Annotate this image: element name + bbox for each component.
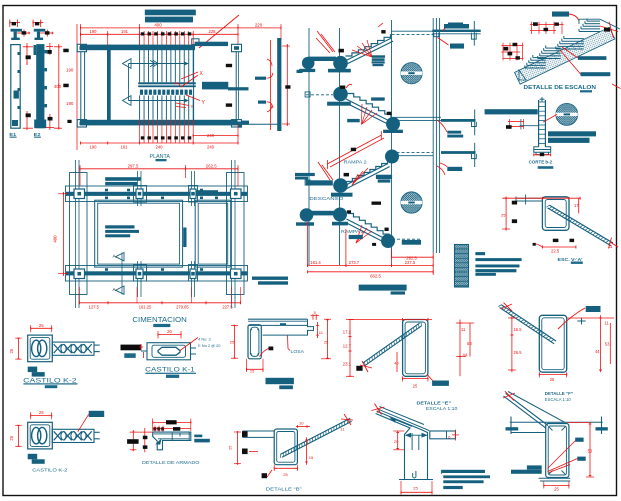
svg-text:25: 25: [227, 445, 232, 450]
svg-text:25: 25: [39, 323, 44, 328]
svg-text:DETALLE “B”: DETALLE “B”: [266, 487, 303, 492]
svg-text:662.5: 662.5: [370, 274, 381, 279]
svg-text:CASTILO K-1: CASTILO K-1: [145, 367, 195, 374]
svg-text:227.5: 227.5: [405, 260, 416, 265]
svg-text:25: 25: [283, 472, 288, 477]
svg-text:11: 11: [461, 327, 466, 332]
svg-text:161.4: 161.4: [310, 260, 321, 265]
svg-text:10: 10: [299, 420, 304, 425]
svg-text:240: 240: [156, 144, 164, 149]
svg-text:190: 190: [66, 101, 74, 106]
svg-text:228: 228: [209, 29, 217, 34]
svg-text:11: 11: [608, 244, 613, 249]
svg-text:25: 25: [550, 377, 555, 382]
svg-text:400: 400: [53, 235, 58, 243]
svg-text:DETALLE “F”: DETALLE “F”: [545, 391, 573, 396]
svg-text:Y: Y: [191, 104, 194, 109]
svg-text:17.2: 17.2: [343, 330, 352, 335]
svg-text:20: 20: [167, 329, 172, 334]
svg-text:ESCALA 1:10: ESCALA 1:10: [426, 406, 458, 411]
svg-text:53: 53: [588, 449, 593, 454]
svg-text:CASTILO K-2: CASTILO K-2: [32, 467, 67, 472]
svg-text:DETALLE DE ARMADO: DETALLE DE ARMADO: [142, 460, 200, 465]
svg-text:E No 2 @ 20: E No 2 @ 20: [198, 343, 221, 348]
svg-text:11: 11: [605, 321, 610, 326]
svg-text:53: 53: [605, 342, 610, 347]
svg-text:190: 190: [90, 29, 98, 34]
svg-text:CORTE b-2: CORTE b-2: [529, 160, 553, 165]
svg-text:273.7: 273.7: [349, 260, 360, 265]
svg-text:ESCALA 1:10: ESCALA 1:10: [545, 397, 572, 402]
svg-text:127.5: 127.5: [89, 305, 100, 310]
svg-text:16.5: 16.5: [514, 327, 523, 332]
svg-text:25: 25: [230, 339, 235, 344]
svg-text:4 No. 3: 4 No. 3: [198, 336, 211, 341]
svg-text:25: 25: [554, 487, 559, 492]
svg-text:25: 25: [413, 485, 418, 490]
svg-text:12.7: 12.7: [343, 344, 352, 349]
svg-text:25: 25: [501, 212, 506, 217]
svg-text:25: 25: [9, 348, 14, 353]
svg-text:23.1: 23.1: [343, 361, 352, 366]
svg-text:22.5: 22.5: [551, 248, 560, 253]
svg-text:CASTILO K-2: CASTILO K-2: [23, 377, 77, 384]
svg-text:190: 190: [66, 68, 74, 73]
svg-text:DETALLE “E”: DETALLE “E”: [417, 400, 452, 405]
svg-text:161: 161: [121, 144, 129, 149]
svg-text:220: 220: [255, 23, 263, 28]
svg-text:5: 5: [314, 310, 316, 315]
svg-text:400: 400: [154, 23, 162, 28]
svg-text:25: 25: [39, 410, 44, 415]
svg-text:297.5: 297.5: [128, 163, 139, 168]
svg-text:20: 20: [394, 439, 399, 444]
svg-text:25: 25: [413, 384, 418, 389]
svg-text:15: 15: [250, 368, 255, 373]
svg-text:CIMENTACION: CIMENTACION: [132, 315, 186, 324]
svg-text:44: 44: [595, 349, 600, 354]
svg-text:249: 249: [207, 144, 215, 149]
svg-text:400: 400: [54, 84, 62, 89]
svg-text:227.5: 227.5: [222, 305, 233, 310]
svg-text:53: 53: [467, 341, 472, 346]
svg-text:191: 191: [121, 29, 129, 34]
svg-text:25: 25: [324, 339, 329, 344]
svg-text:279.65: 279.65: [176, 305, 189, 310]
svg-text:DESCANSO: DESCANSO: [309, 196, 344, 201]
svg-text:161.25: 161.25: [139, 305, 152, 310]
svg-text:249: 249: [207, 133, 215, 138]
svg-text:190: 190: [90, 144, 98, 149]
svg-text:25: 25: [9, 435, 14, 440]
svg-text:26.5: 26.5: [514, 350, 523, 355]
svg-text:RAMPA 2: RAMPA 2: [344, 160, 368, 165]
svg-text:15: 15: [309, 455, 314, 460]
svg-text:LOSA: LOSA: [291, 349, 305, 354]
svg-text:262.5: 262.5: [206, 163, 217, 168]
svg-text:ESC. V-‘A’: ESC. V-‘A’: [558, 257, 583, 262]
